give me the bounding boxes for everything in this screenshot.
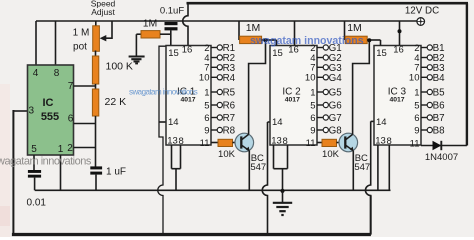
svg-text:swagatam innovations: swagatam innovations	[0, 156, 92, 168]
svg-text:1N4007: 1N4007	[425, 152, 458, 163]
svg-text:4017: 4017	[180, 96, 195, 103]
svg-text:B5: B5	[433, 88, 446, 99]
svg-text:1 M: 1 M	[73, 28, 90, 39]
svg-text:B8: B8	[433, 126, 446, 137]
svg-text:IC: IC	[43, 97, 54, 109]
svg-text:6: 6	[414, 113, 419, 124]
svg-text:R7: R7	[223, 113, 236, 124]
svg-text:B4: B4	[433, 73, 446, 84]
svg-text:15: 15	[168, 48, 179, 59]
svg-text:0.1uF: 0.1uF	[160, 6, 184, 17]
svg-text:9: 9	[414, 125, 419, 136]
svg-text:5: 5	[31, 144, 37, 155]
svg-text:7: 7	[68, 81, 74, 92]
svg-text:13: 13	[375, 136, 386, 147]
svg-text:swagatam innovations: swagatam innovations	[129, 87, 198, 96]
svg-text:547: 547	[354, 162, 370, 173]
svg-text:10: 10	[305, 73, 316, 84]
svg-text:10K: 10K	[322, 149, 340, 160]
svg-text:11: 11	[306, 138, 316, 149]
svg-text:9: 9	[310, 125, 315, 136]
svg-text:22 K: 22 K	[105, 96, 127, 108]
svg-text:100 K: 100 K	[106, 60, 133, 72]
svg-text:547: 547	[250, 162, 266, 173]
svg-text:3: 3	[29, 106, 35, 117]
svg-text:1M: 1M	[347, 22, 362, 34]
svg-text:14: 14	[168, 117, 179, 128]
svg-text:555: 555	[41, 111, 59, 123]
svg-text:G5: G5	[329, 88, 343, 99]
svg-text:4017: 4017	[389, 96, 404, 103]
svg-text:1: 1	[204, 87, 209, 98]
svg-text:6: 6	[204, 113, 209, 124]
svg-text:0.01: 0.01	[27, 198, 47, 209]
svg-text:1M: 1M	[143, 18, 158, 30]
svg-text:5: 5	[310, 100, 315, 111]
svg-text:1 uF: 1 uF	[106, 167, 126, 178]
svg-text:pot: pot	[73, 42, 87, 53]
svg-text:R4: R4	[223, 73, 236, 84]
svg-text:10K: 10K	[218, 149, 236, 160]
svg-text:14: 14	[272, 117, 283, 128]
svg-text:16: 16	[182, 45, 193, 56]
svg-text:11: 11	[410, 138, 420, 149]
svg-text:5: 5	[204, 100, 209, 111]
svg-text:13: 13	[167, 136, 178, 147]
svg-text:B7: B7	[433, 113, 445, 124]
svg-text:16: 16	[393, 45, 404, 56]
svg-text:11: 11	[200, 138, 210, 149]
svg-text:6: 6	[310, 113, 315, 124]
svg-text:4: 4	[33, 68, 39, 79]
svg-text:9: 9	[204, 125, 209, 136]
svg-text:1: 1	[58, 144, 64, 155]
svg-text:1M: 1M	[246, 22, 261, 34]
svg-text:R6: R6	[223, 101, 236, 112]
svg-text:G8: G8	[329, 126, 343, 137]
svg-text:14: 14	[376, 117, 387, 128]
svg-text:4017: 4017	[285, 96, 300, 103]
svg-text:swagatam innovations: swagatam innovations	[250, 35, 364, 47]
svg-text:15: 15	[376, 48, 387, 59]
svg-text:G4: G4	[329, 73, 343, 84]
svg-text:15: 15	[272, 48, 283, 59]
svg-text:5: 5	[414, 100, 419, 111]
svg-text:10: 10	[409, 73, 420, 84]
svg-text:B6: B6	[433, 101, 446, 112]
svg-text:Adjust: Adjust	[91, 7, 115, 17]
svg-text:1: 1	[414, 87, 419, 98]
svg-text:12V DC: 12V DC	[405, 6, 439, 17]
svg-text:13: 13	[271, 136, 282, 147]
svg-text:1: 1	[310, 87, 315, 98]
svg-text:G7: G7	[329, 113, 342, 124]
svg-text:2: 2	[67, 143, 73, 154]
svg-text:G6: G6	[329, 101, 343, 112]
svg-text:R5: R5	[223, 88, 236, 99]
svg-text:8: 8	[54, 68, 60, 79]
svg-text:R8: R8	[223, 126, 236, 137]
svg-text:6: 6	[68, 114, 74, 125]
svg-text:10: 10	[199, 73, 210, 84]
